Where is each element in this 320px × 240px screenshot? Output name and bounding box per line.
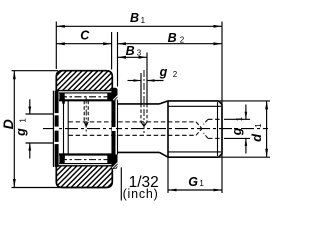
hex socket hidden lines <box>208 118 222 120</box>
retainer lip top-left <box>59 93 64 101</box>
shank hole centerline <box>143 70 145 135</box>
thread root bottom <box>168 151 221 153</box>
svg-text:g: g <box>230 127 244 136</box>
stud flange bottom section <box>112 155 117 169</box>
extension d1 top <box>218 100 270 102</box>
svg-text:d: d <box>249 133 264 142</box>
svg-text:C: C <box>80 29 90 43</box>
flange middle bar <box>112 100 115 154</box>
svg-text:D: D <box>0 119 16 129</box>
svg-text:3: 3 <box>137 49 142 58</box>
dimension C <box>56 43 111 45</box>
extension g1 right top <box>224 118 250 120</box>
dimension g2 <box>128 80 142 82</box>
extension line shank start <box>117 32 119 87</box>
svg-text:1: 1 <box>199 179 204 188</box>
wire <box>43 128 268 130</box>
roller inner surface lines <box>59 92 112 94</box>
svg-text:B: B <box>126 44 135 58</box>
flange right face <box>117 100 119 154</box>
dimension B3 <box>118 56 148 58</box>
thread lead chamfer top <box>160 101 169 104</box>
svg-text:g: g <box>14 128 28 137</box>
thread major diameter top <box>168 100 219 102</box>
extension g1 left top <box>26 113 54 115</box>
retainer lip top-right <box>107 93 112 101</box>
retainer lip bottom-left <box>59 155 64 164</box>
outer ring roller <box>56 71 112 188</box>
stud shank outline <box>118 103 160 105</box>
svg-text:1: 1 <box>141 16 146 25</box>
stud end chamfer ring <box>217 102 219 156</box>
hatch bottom band <box>35 166 135 188</box>
axial bore hidden top <box>69 121 197 123</box>
extension g1 left bottom <box>26 142 54 144</box>
dimension B2 <box>118 43 223 45</box>
thread shoulder <box>167 101 169 157</box>
dimension g1 left <box>29 99 31 114</box>
needle rollers top row <box>60 96 112 98</box>
axial bore hidden bottom <box>69 134 197 136</box>
dimension B1 <box>56 25 222 27</box>
dimension d1 <box>266 101 268 157</box>
left end plate body <box>55 91 59 167</box>
head hole centerline <box>85 98 87 132</box>
svg-text:g: g <box>159 65 168 79</box>
bore drill cone <box>196 122 202 129</box>
extension D top <box>12 70 59 72</box>
extension g1 right bottom <box>224 137 250 139</box>
shank grease hole hidden <box>140 104 142 122</box>
extension d1 bottom <box>218 156 270 158</box>
svg-text:1: 1 <box>19 118 28 123</box>
svg-text:1: 1 <box>254 123 263 128</box>
retainer lip bottom-right <box>107 155 112 164</box>
svg-text:G: G <box>188 175 198 189</box>
extension line hole right B3 <box>146 53 148 104</box>
leader 1/32 <box>120 167 122 200</box>
svg-text:B: B <box>130 11 139 25</box>
svg-text:(inch): (inch) <box>123 187 159 201</box>
thread lead chamfer bottom <box>160 152 169 157</box>
dimension D <box>13 71 15 188</box>
needle rollers bottom row <box>60 159 112 161</box>
stud end face <box>221 104 223 153</box>
extension line roller left <box>55 22 57 70</box>
stud flange top section <box>112 88 117 101</box>
inner washer left <box>63 99 65 159</box>
extension line stud end <box>221 22 223 194</box>
left end plate outer face <box>52 91 54 167</box>
extension line shoulder <box>167 158 169 194</box>
svg-text:2: 2 <box>173 70 178 79</box>
extension D bottom <box>12 187 61 189</box>
head grease hole hidden <box>83 101 85 122</box>
end chamfer cuts <box>219 101 223 105</box>
thread root top <box>168 105 221 107</box>
extension line roller right <box>111 32 113 70</box>
stud head left face <box>67 100 69 154</box>
extension line hole left g2 <box>140 73 142 104</box>
dimension g1 right <box>245 105 247 120</box>
hatch top band <box>36 71 129 91</box>
dimension G1 <box>168 189 222 191</box>
svg-text:B: B <box>168 31 177 45</box>
svg-text:2: 2 <box>180 36 185 45</box>
thread major diameter bottom <box>168 156 219 158</box>
